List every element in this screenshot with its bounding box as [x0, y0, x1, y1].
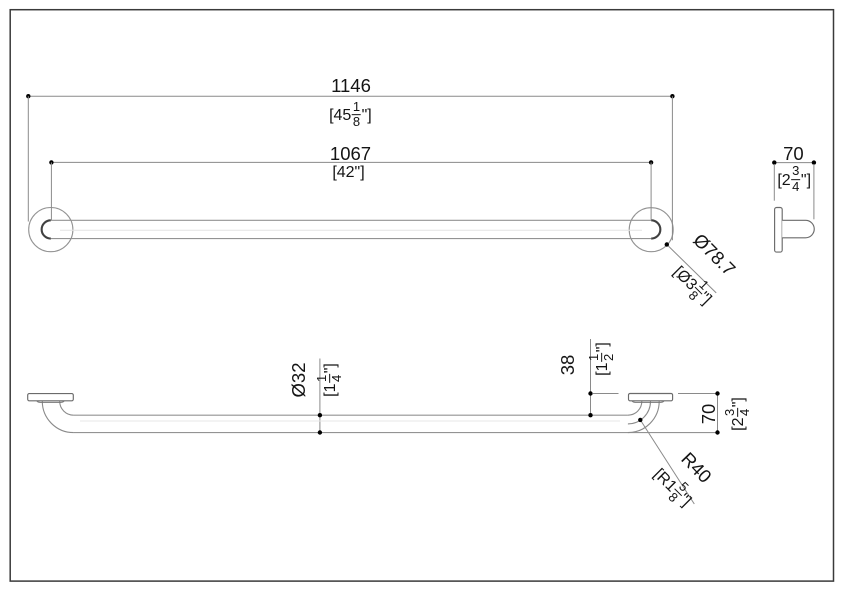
- grab bar tube top edge (front view): [51, 219, 651, 221]
- right flange plate (top view): [629, 394, 673, 401]
- left flange skirt (top view): [37, 401, 65, 403]
- tube highlight line (front view): [60, 229, 642, 231]
- flange circle right (front view): [629, 208, 673, 252]
- dimension line 38: [590, 339, 592, 415]
- dimension text 70 (side view): [783, 144, 804, 163]
- extension line left for 1146: [27, 96, 29, 221]
- extension line left for 1067: [50, 162, 52, 220]
- dimension line 70 (top view right): [717, 394, 719, 433]
- left bend inner arc (top view): [60, 401, 74, 415]
- dimension text R40: [678, 449, 715, 486]
- extension line right for 70 (side view): [813, 164, 815, 219]
- right flange skirt (top view): [632, 401, 664, 403]
- bar top edge (top view): [74, 414, 628, 416]
- dimension text [1 1/2 in]: [589, 342, 617, 376]
- flange circle left (front view): [29, 208, 73, 252]
- right bend inner arc (top view): [628, 401, 642, 415]
- bar bottom edge and extension to 70 dim (top view): [74, 432, 718, 434]
- tube highlight line (top view): [80, 420, 620, 422]
- extension line at wall right segment: [678, 393, 718, 395]
- dimension text diameter 78.7: [689, 231, 738, 280]
- dimension line diameter 32: [319, 359, 321, 433]
- leader line for diameter 78.7: [667, 245, 716, 293]
- extension line right for 1146: [671, 96, 673, 240]
- dimension text [R1 5/8 in]: [646, 462, 698, 514]
- dimension text [42 in]: [332, 165, 364, 181]
- grab bar right end cap (front view): [651, 220, 660, 238]
- grab bar tube bottom edge (front view): [51, 238, 651, 240]
- extension line at wall left segment: [592, 393, 618, 395]
- extension line right for 1067: [650, 162, 652, 219]
- extension line left for 70 (side view): [773, 164, 775, 201]
- flange plate (side view): [775, 208, 783, 253]
- dimension text [2 3/4 in] (side view): [777, 167, 811, 195]
- dimension line 1146: [28, 95, 672, 97]
- dimension text [1 1/4 in]: [317, 363, 345, 397]
- grab bar left end cap (front view): [42, 220, 51, 238]
- mounting stem with rounded cap (side view): [782, 220, 814, 238]
- dimension text [45 1/8 in]: [329, 102, 372, 130]
- dimension text [2 3/4 in] (top view right): [725, 397, 753, 431]
- dimension text 38: [559, 355, 578, 376]
- dimension text diameter 32: [289, 363, 308, 398]
- dimension text 1067: [330, 145, 371, 164]
- right bend outer arc (top view): [628, 401, 659, 432]
- dimension text [diameter 3 1/8 in]: [665, 260, 717, 312]
- dimension line 70 (side view): [774, 162, 814, 164]
- dimension line 1067: [51, 161, 651, 163]
- left bend outer arc (top view): [42, 401, 73, 432]
- right bend centerline arc R40 (top view): [628, 401, 651, 424]
- dimension text 1146: [331, 77, 371, 96]
- dimension text 70 (top view right): [699, 404, 718, 425]
- leader line for R40: [640, 420, 694, 504]
- left flange plate (top view): [28, 394, 74, 401]
